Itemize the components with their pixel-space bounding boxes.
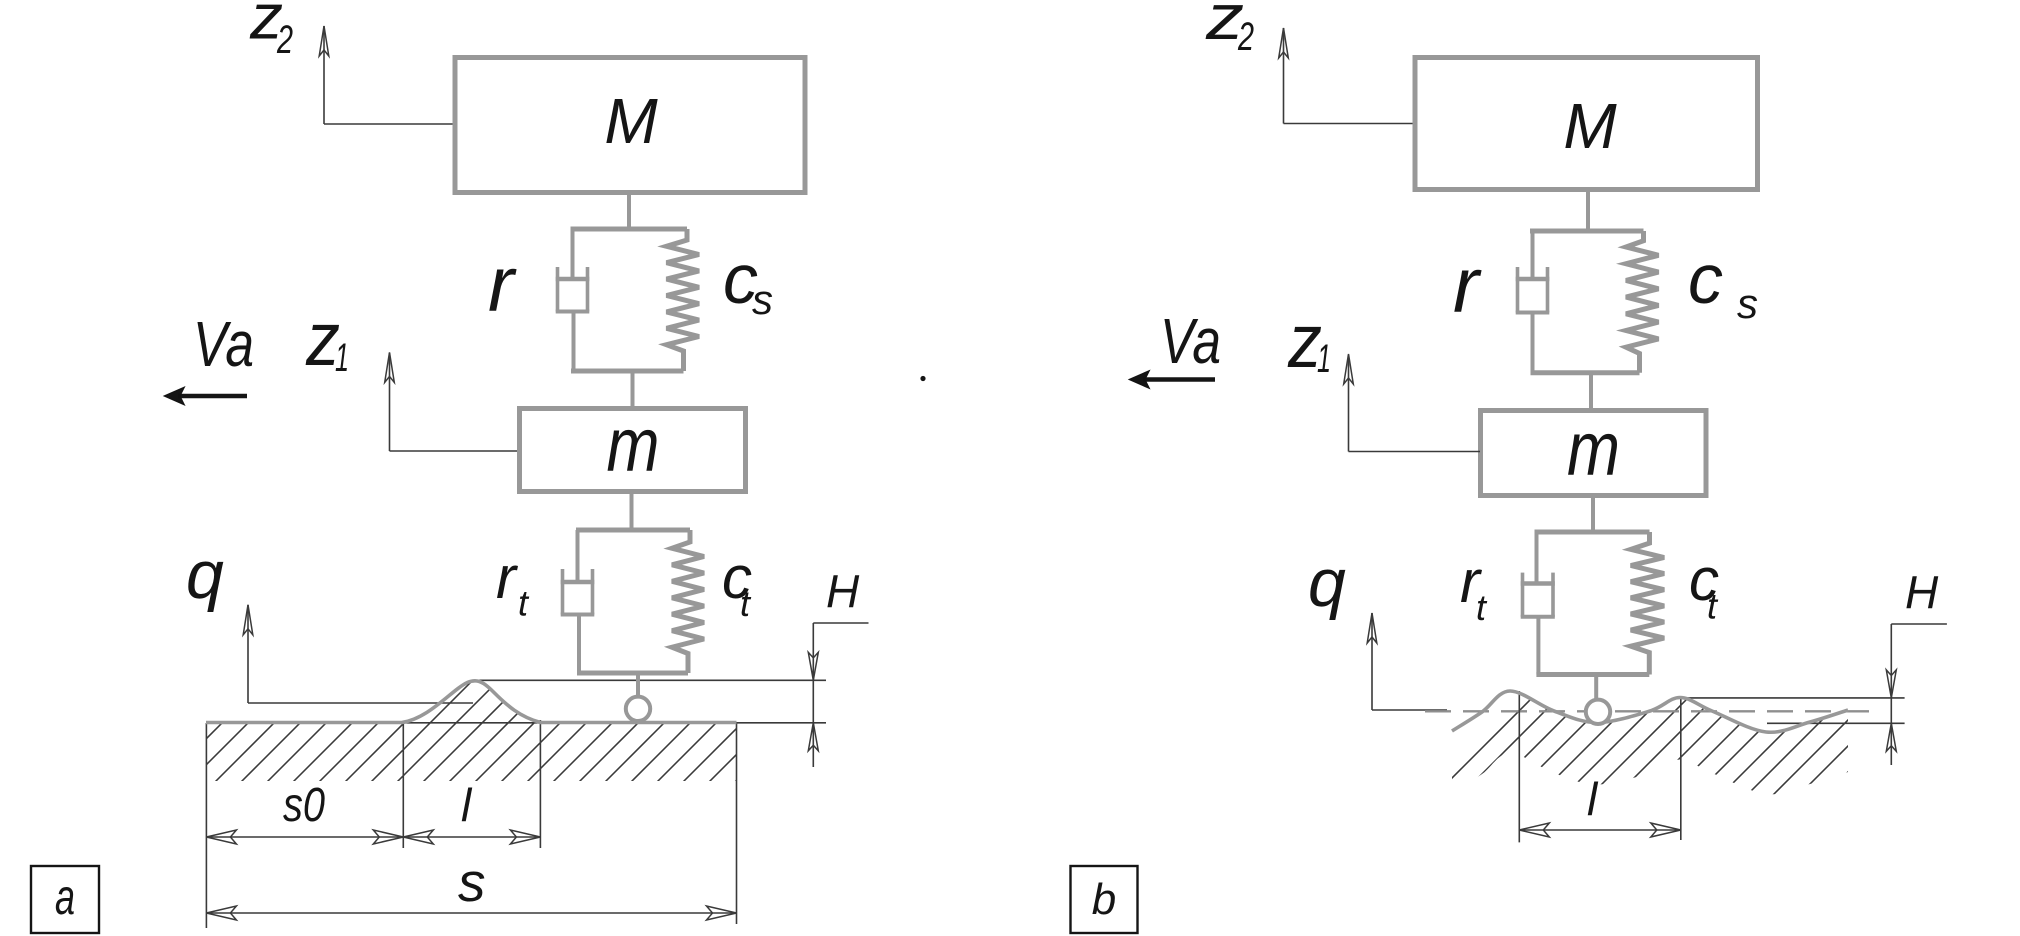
small ink dot between figures [920, 376, 925, 381]
label z2 (fig a) [249, 0, 293, 62]
svg-text:m: m [1567, 407, 1620, 492]
label m (fig a) [607, 403, 660, 488]
velocity arrow Va (fig b) [1129, 371, 1215, 389]
extension line l right boundary (fig a) [539, 720, 541, 848]
damper r_t (fig a) piston plate [561, 580, 595, 585]
dimension s (fig a) [206, 906, 736, 920]
svg-text:H: H [826, 566, 860, 618]
mass M rectangle (fig a) [455, 58, 805, 193]
dimension s0 (fig a) [206, 830, 403, 844]
spring c_t (fig b) zigzag [1631, 532, 1664, 675]
axis z1 (fig b) [1344, 354, 1480, 452]
wire m to tyre assembly (fig b) [1591, 495, 1595, 532]
svg-text:Va: Va [1160, 305, 1221, 377]
extension line s right boundary (fig a) [736, 723, 738, 924]
wire M to suspension (fig a) [627, 195, 631, 229]
axis z1 (fig a) [385, 352, 517, 451]
crest reference line H (fig b) [1681, 697, 1905, 699]
label M (fig a) [604, 85, 658, 157]
svg-text:t: t [518, 583, 530, 624]
svg-text:2: 2 [276, 18, 293, 62]
wheel contact point (fig b) [1586, 700, 1610, 724]
svg-text:r: r [1453, 241, 1482, 329]
svg-text:b: b [1092, 875, 1116, 924]
suspension frame top bar (tyre a) [576, 528, 690, 533]
svg-text:s: s [1737, 280, 1758, 327]
figure label box a [31, 866, 99, 933]
letter a [55, 869, 75, 925]
svg-text:l: l [1587, 773, 1599, 825]
damper r_t (fig b) rod upper [1535, 532, 1539, 586]
dimension H leader (fig a) [808, 623, 868, 767]
ground hatching (fig a) [150, 675, 868, 795]
svg-text:s: s [752, 276, 773, 323]
svg-text:m: m [607, 403, 660, 488]
damper r_t (fig a) cylinder [561, 569, 595, 615]
wavy road surface (fig b) [1452, 691, 1848, 732]
figure label box b [1071, 866, 1138, 933]
label z2 (fig b) [1205, 0, 1254, 59]
mass M rectangle (fig b) [1415, 58, 1758, 190]
svg-text:2: 2 [1237, 15, 1254, 59]
wire to wheel (fig a) [636, 673, 640, 697]
extension line l right (fig b) [1680, 698, 1682, 840]
damper r (fig b) piston plate [1516, 277, 1550, 282]
bump crest reference line H (fig a) [477, 679, 826, 681]
label c_s (fig b) [1688, 240, 1758, 327]
damper r (fig a) cylinder [556, 267, 590, 312]
label s (fig a) [458, 851, 486, 913]
svg-text:t: t [1476, 587, 1488, 628]
letter b [1092, 875, 1116, 924]
label Va (fig a) [193, 308, 254, 380]
dimension l (fig a) [403, 830, 540, 844]
damper r_t (fig a) rod upper [576, 530, 580, 584]
suspension frame bottom bar (suspension b upper) [1531, 370, 1640, 375]
label r (fig a) [488, 240, 517, 328]
damper r_t (fig b) rod lower [1536, 617, 1540, 675]
wire M to suspension (fig b) [1586, 190, 1590, 231]
mass m rectangle (fig a) [520, 409, 746, 492]
label H (fig a) [826, 566, 860, 618]
road surface reference line (fig a) [206, 722, 826, 724]
label c_t (fig a) [722, 544, 752, 624]
svg-text:M: M [604, 85, 658, 157]
mass m rectangle (fig b) [1481, 411, 1707, 496]
damper r (fig b) cylinder [1516, 267, 1550, 313]
label r_t (fig b) [1460, 548, 1488, 628]
svg-text:s0: s0 [283, 779, 325, 832]
label r (fig b) [1453, 241, 1482, 329]
damper r (fig a) piston plate [556, 277, 590, 282]
svg-text:Va: Va [193, 308, 254, 380]
damper r (fig a) rod upper [571, 229, 575, 281]
svg-text:r: r [488, 240, 517, 328]
svg-text:H: H [1905, 567, 1939, 619]
wire suspension to m (fig a) [631, 371, 635, 408]
damper r_t (fig b) piston plate [1521, 581, 1555, 586]
label m (fig b) [1567, 407, 1620, 492]
svg-text:l: l [461, 779, 473, 831]
suspension frame bottom bar (tyre a) [577, 671, 688, 676]
suspension frame top bar (tyre b) [1535, 530, 1650, 535]
extension line left s boundary (fig a) [205, 723, 207, 928]
velocity arrow Va (fig a) [164, 387, 247, 405]
label Va (fig b) [1160, 305, 1221, 377]
ground hatching (fig b) [1430, 670, 1976, 800]
svg-text:s: s [458, 851, 486, 913]
extension line s0/l boundary (fig a) [402, 723, 404, 848]
dimension l (fig b) [1519, 823, 1681, 837]
wire suspension to m (fig b) [1589, 373, 1593, 410]
road surface with bump (fig a) [206, 681, 737, 723]
svg-text:M: M [1563, 90, 1617, 162]
wave centerline dashed (fig b) [1425, 710, 1878, 712]
label z1 (fig a) [305, 297, 349, 382]
axis z2 (fig b) [1279, 28, 1414, 124]
dimension H leader (fig b) [1886, 624, 1947, 765]
label c_t (fig b) [1689, 546, 1719, 627]
label z1 (fig b) [1287, 299, 1331, 384]
label q (fig a) [186, 537, 224, 613]
svg-text:r: r [496, 544, 518, 611]
axis q (fig a) [243, 605, 473, 703]
axis q (fig b) [1367, 613, 1447, 710]
wire to wheel (fig b) [1594, 675, 1598, 702]
damper r_t (fig a) rod lower [577, 615, 581, 674]
label s0 (fig a) [283, 779, 325, 832]
label q (fig b) [1308, 545, 1346, 621]
label r_t (fig a) [496, 544, 530, 624]
spring c_s (fig b) zigzag [1626, 231, 1659, 373]
suspension frame bottom bar (tyre b) [1536, 672, 1649, 677]
spring c_s (fig a) zigzag [667, 229, 700, 371]
damper r (fig b) rod upper [1531, 231, 1535, 281]
label l (fig a) [461, 779, 473, 831]
wheel contact point (fig a) [626, 697, 650, 721]
damper r (fig b) rod lower [1531, 313, 1535, 373]
damper r_t (fig b) cylinder [1521, 573, 1555, 617]
damper r (fig a) rod lower [572, 312, 576, 372]
label l (fig b) [1587, 773, 1599, 825]
label M (fig b) [1563, 90, 1617, 162]
svg-text:a: a [55, 869, 75, 925]
label c_s (fig a) [723, 240, 773, 323]
extension line l left (fig b) [1518, 691, 1520, 842]
svg-text:c: c [1688, 240, 1723, 318]
trough reference line H (fig b) [1767, 722, 1905, 724]
spring c_t (fig a) zigzag [672, 530, 704, 673]
suspension frame top bar (suspension b upper) [1530, 229, 1644, 234]
svg-text:1: 1 [335, 336, 349, 380]
axis z2 (fig a) [319, 26, 454, 124]
suspension frame top bar (suspension a upper) [571, 227, 688, 232]
svg-text:1: 1 [1317, 337, 1331, 381]
svg-text:q: q [1308, 545, 1346, 621]
suspension frame bottom bar (suspension a upper) [571, 369, 684, 374]
label H (fig b) [1905, 567, 1939, 619]
wire m to tyre assembly (fig a) [630, 492, 634, 531]
svg-text:q: q [186, 537, 224, 613]
